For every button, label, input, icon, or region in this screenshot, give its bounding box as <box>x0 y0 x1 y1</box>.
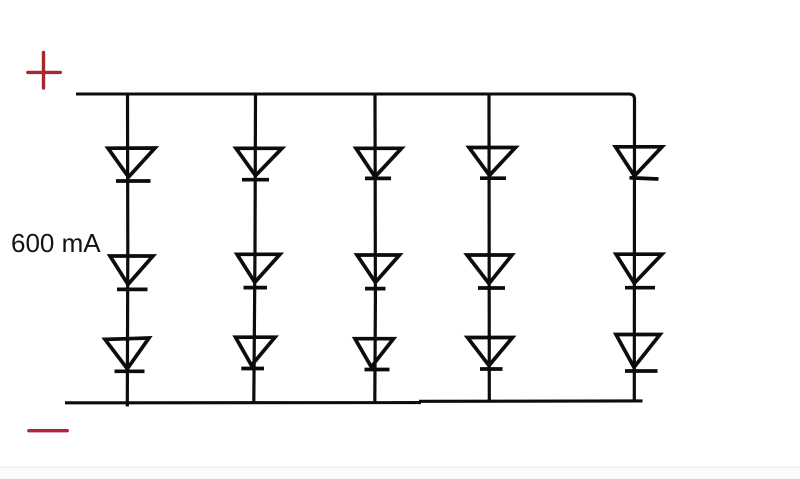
diode D6 (string 1, middle) <box>110 256 153 289</box>
+ terminal (positive supply marker) <box>28 53 61 89</box>
diode D5 (string 5, top) <box>616 147 663 179</box>
diode D15 (string 5, bottom) <box>616 335 660 372</box>
diode D14 (string 4, bottom) <box>468 338 513 370</box>
wire string 4 vertical <box>487 94 490 403</box>
wire string 5 vertical <box>633 98 636 402</box>
diode D12 (string 2, bottom) <box>236 337 276 368</box>
diode D11 (string 1, bottom) <box>105 338 149 371</box>
diode D4 (string 4, top) <box>469 148 516 179</box>
wire string 3 vertical <box>373 94 377 403</box>
diode D13 (string 3, bottom) <box>355 339 394 370</box>
wire string 1 vertical <box>126 94 130 407</box>
diode D1 (string 1, top) <box>108 148 155 181</box>
faint page edge line at bottom <box>0 466 800 467</box>
negative rail right segment (bottom bus wire) <box>419 399 643 402</box>
wire string 2 vertical <box>254 94 256 403</box>
diode D2 (string 2, top) <box>236 148 282 179</box>
diode D9 (string 4, middle) <box>467 255 512 288</box>
diode D7 (string 2, middle) <box>237 254 280 287</box>
label 600 mA (string current) <box>11 228 101 259</box>
diode D10 (string 5, middle) <box>616 254 662 288</box>
diode D3 (string 3, top) <box>356 148 402 178</box>
diode D8 (string 3, middle) <box>357 255 400 289</box>
positive rail (top bus wire) <box>76 94 635 99</box>
- terminal (negative supply marker) <box>29 429 68 432</box>
negative rail left segment (bottom bus wire) <box>65 401 421 404</box>
